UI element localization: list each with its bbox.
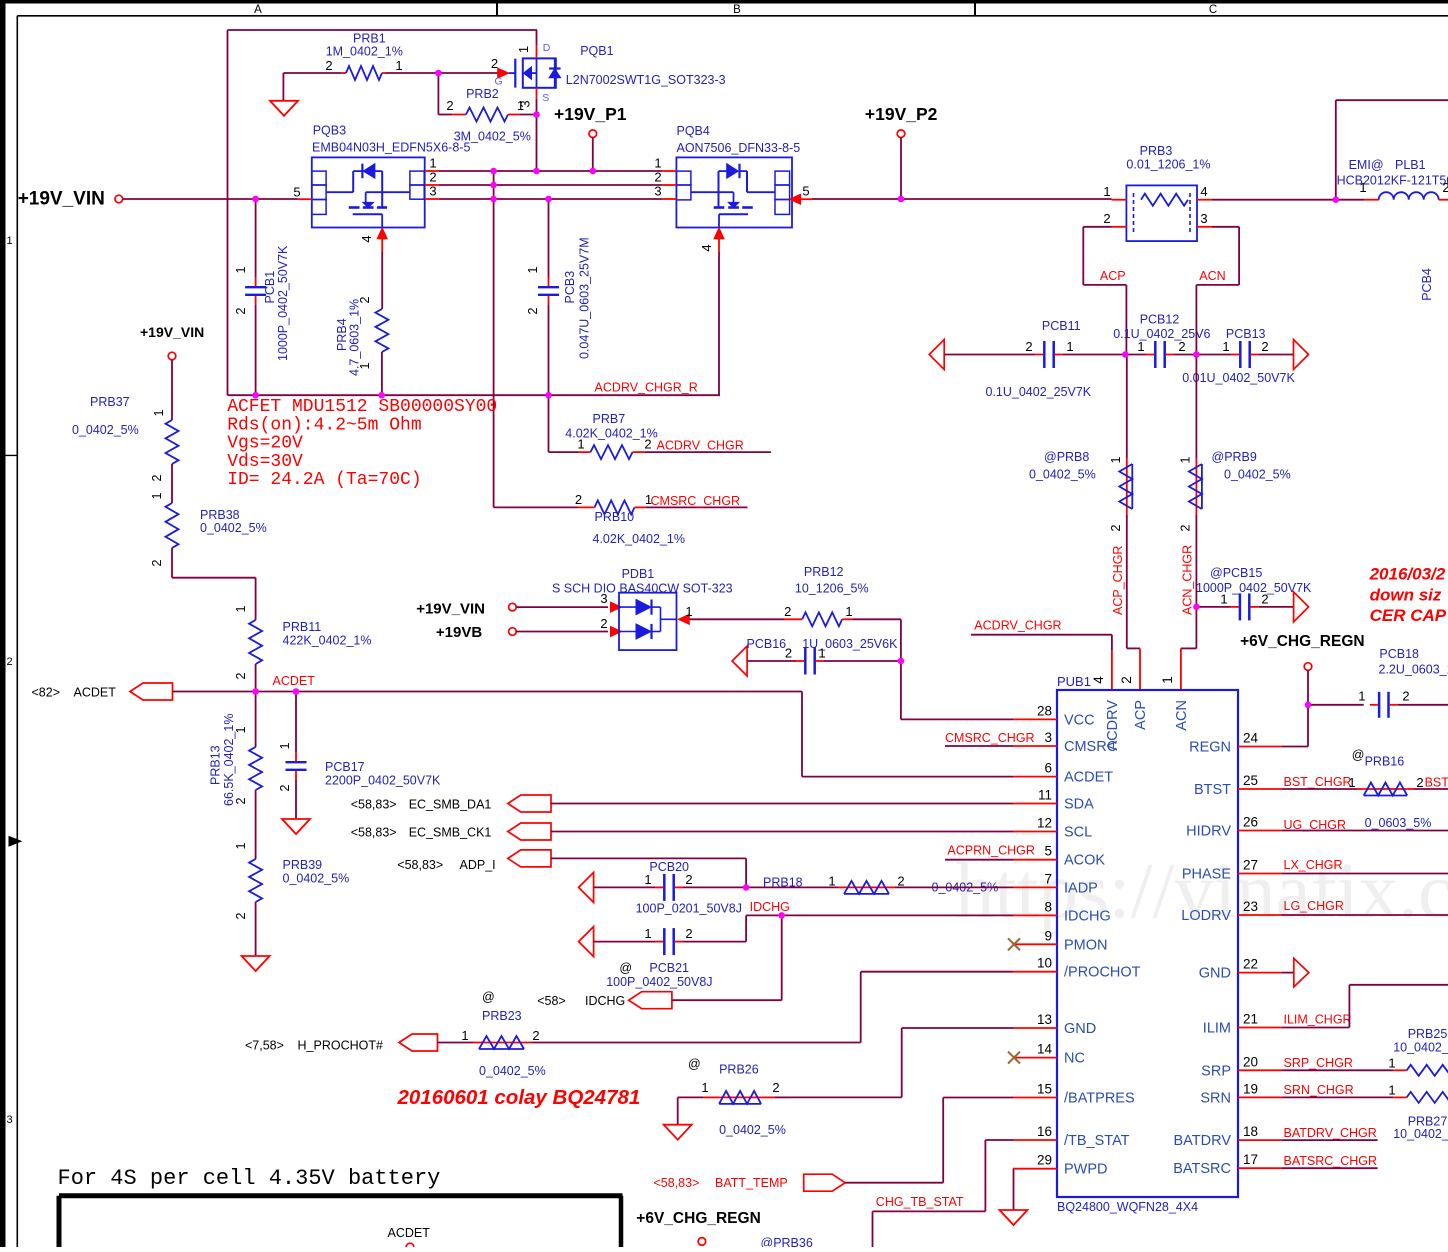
svg-text:0_0402_5%: 0_0402_5% — [200, 521, 267, 535]
pin PQB1 drain stub — [536, 30, 538, 46]
svg-text:9: 9 — [1044, 928, 1052, 943]
svg-text:2016/03/2: 2016/03/2 — [1369, 565, 1446, 584]
wire PRB38 to PRB11 — [171, 548, 173, 578]
pin 5 ACOK — [1013, 859, 1057, 861]
svg-text:1: 1 — [1388, 1083, 1395, 1098]
svg-text:BQ24800_WQFN28_4X4: BQ24800_WQFN28_4X4 — [1057, 1200, 1198, 1214]
svg-text:14: 14 — [1037, 1042, 1053, 1057]
pin 14 NC — [1013, 1057, 1057, 1059]
svg-text:HCB2012KF-121T50: HCB2012KF-121T50 — [1337, 174, 1448, 188]
svg-text:1: 1 — [644, 872, 651, 887]
svg-text:25: 25 — [1243, 773, 1258, 788]
pin 12 SCL — [1013, 831, 1057, 833]
svg-text:EC_SMB_DA1: EC_SMB_DA1 — [409, 798, 492, 812]
svg-text:GND: GND — [1064, 1021, 1096, 1037]
svg-text:For 4S per cell 4.35V battery: For 4S per cell 4.35V battery — [58, 1166, 441, 1191]
svg-text:@PRB9: @PRB9 — [1212, 450, 1257, 464]
svg-text:/BATPRES: /BATPRES — [1064, 1091, 1135, 1107]
wire PRB1 to PQB1 gate — [438, 72, 503, 74]
svg-text:1: 1 — [150, 492, 164, 499]
svg-text:+19V_P1: +19V_P1 — [554, 104, 627, 124]
wire ACN — [1212, 226, 1239, 228]
wire IDCHG to pin8 — [746, 914, 1013, 916]
wire PRB12 to VCC — [852, 618, 901, 620]
svg-text:PRB23: PRB23 — [482, 1009, 522, 1023]
svg-text:+19V_VIN: +19V_VIN — [416, 601, 485, 618]
svg-text:26: 26 — [1243, 815, 1258, 830]
pin PQB1 source stub — [536, 88, 538, 99]
svg-text:IDCHG: IDCHG — [750, 900, 790, 914]
svg-text:BATSRC: BATSRC — [1173, 1161, 1231, 1177]
svg-text:@PRB36: @PRB36 — [761, 1236, 813, 1247]
svg-text:4.02K_0402_1%: 4.02K_0402_1% — [593, 532, 685, 546]
power port for PCB20 — [579, 872, 594, 902]
svg-text:21: 21 — [1243, 1012, 1258, 1027]
svg-text:ACDET: ACDET — [1064, 770, 1113, 786]
svg-text:Rds(on):4.2~5m Ohm: Rds(on):4.2~5m Ohm — [227, 415, 421, 435]
svg-text:PMON: PMON — [1064, 937, 1108, 953]
svg-text:1: 1 — [1179, 456, 1193, 463]
resistor PRB7 — [578, 451, 590, 453]
svg-text:PRB11: PRB11 — [283, 620, 322, 634]
svg-text:0.1U_0402_25V6: 0.1U_0402_25V6 — [1113, 327, 1210, 341]
svg-text:1: 1 — [152, 409, 166, 416]
wire bottom rail — [228, 394, 721, 396]
svg-text:1: 1 — [461, 1028, 468, 1043]
svg-text:1: 1 — [234, 726, 248, 733]
pin 7 IADP — [1013, 886, 1057, 888]
resistor PRB10 — [578, 506, 594, 508]
svg-text:2: 2 — [1179, 524, 1193, 531]
svg-text:1: 1 — [1358, 689, 1365, 704]
pins PQB4 1 2 3 stubs — [663, 170, 677, 172]
svg-text:ACDRV_CHGR: ACDRV_CHGR — [657, 439, 744, 453]
svg-text:24: 24 — [1243, 731, 1259, 746]
wire EMI riser — [1335, 100, 1337, 200]
capacitor PCB1 — [255, 199, 257, 277]
svg-text:ACDET: ACDET — [273, 674, 316, 688]
svg-text:3: 3 — [1200, 211, 1207, 226]
svg-text:1: 1 — [1388, 1056, 1395, 1071]
svg-text:LG_CHGR: LG_CHGR — [1284, 899, 1344, 913]
svg-text:2: 2 — [6, 656, 12, 668]
svg-text:PQB3: PQB3 — [313, 124, 346, 138]
no-connect NC — [1008, 1052, 1020, 1064]
svg-text:S SCH DIO BAS40CW SOT-323: S SCH DIO BAS40CW SOT-323 — [552, 582, 733, 596]
capacitor PCB3 — [548, 199, 550, 277]
svg-text:ACN: ACN — [1199, 269, 1225, 283]
svg-text:13: 13 — [1037, 1012, 1052, 1027]
svg-text:+19V_VIN: +19V_VIN — [140, 324, 204, 340]
svg-text:ACP_CHGR: ACP_CHGR — [1111, 546, 1125, 615]
svg-text:PCB3: PCB3 — [563, 271, 577, 304]
wire drain bus line1 — [439, 170, 663, 172]
pin PQB4 5 — [790, 194, 801, 204]
svg-text:PRB38: PRB38 — [200, 508, 240, 522]
svg-text:2: 2 — [1103, 211, 1110, 226]
pin 27 PHASE — [1238, 873, 1282, 875]
pin 10 /PROCHOT — [1013, 971, 1057, 973]
svg-text:10: 10 — [1037, 956, 1052, 971]
svg-text:ACP: ACP — [1133, 700, 1149, 730]
svg-text:66.5K_0402_1%: 66.5K_0402_1% — [222, 714, 236, 806]
svg-text:PCB18: PCB18 — [1379, 647, 1419, 661]
pin 18 BATDRV — [1238, 1139, 1282, 1141]
svg-text:Vgs=20V: Vgs=20V — [227, 434, 303, 454]
sheet border frame — [0, 0, 1448, 4]
svg-text:2: 2 — [150, 559, 164, 566]
svg-text:<82>: <82> — [32, 686, 61, 700]
resistor PRB23 — [438, 1042, 474, 1044]
svg-text:BST: BST — [1425, 776, 1448, 790]
wire PRB3 out right — [1212, 199, 1364, 201]
svg-text:2: 2 — [278, 784, 292, 791]
svg-text:6: 6 — [1044, 761, 1052, 776]
svg-text:2200P_0402_50V7K: 2200P_0402_50V7K — [325, 774, 441, 788]
svg-text:EC_SMB_CK1: EC_SMB_CK1 — [409, 826, 492, 840]
pins PQB3 1 2 3 stubs — [425, 170, 439, 172]
wire EC_SMB_DA1 to SDA — [551, 803, 1013, 805]
svg-text:2: 2 — [1119, 676, 1134, 684]
svg-text:18: 18 — [1243, 1124, 1258, 1139]
svg-text:PRB3: PRB3 — [1140, 144, 1173, 158]
wire ACDRV_CHGR — [971, 634, 1112, 636]
svg-text:100P_0201_50V8J: 100P_0201_50V8J — [636, 902, 742, 916]
wire PWPD to ground — [1012, 1168, 1015, 1170]
svg-text:2: 2 — [234, 797, 248, 804]
pin 17 BATSRC — [1238, 1167, 1282, 1169]
svg-text:0.1U_0402_25V7K: 0.1U_0402_25V7K — [986, 385, 1092, 399]
svg-text:PRB7: PRB7 — [593, 412, 626, 426]
svg-text:1: 1 — [234, 842, 248, 849]
svg-text:1: 1 — [845, 604, 852, 619]
svg-text:10_0402_: 10_0402_ — [1393, 1041, 1448, 1055]
svg-text:5: 5 — [802, 184, 809, 199]
svg-text:1: 1 — [828, 874, 835, 889]
capacitor PCB21 — [579, 927, 594, 957]
svg-text:+6V_CHG_REGN: +6V_CHG_REGN — [1240, 633, 1364, 650]
wire PRB26 to GND pin13 — [790, 1096, 902, 1098]
svg-text:SRP_CHGR: SRP_CHGR — [1284, 1056, 1353, 1070]
svg-text:3: 3 — [1044, 730, 1052, 745]
svg-text:Vds=30V: Vds=30V — [227, 452, 303, 472]
svg-text:3: 3 — [6, 1114, 12, 1126]
svg-text:IDCHG: IDCHG — [1064, 908, 1111, 924]
pin 6 ACDET — [1013, 776, 1057, 778]
svg-text:22: 22 — [1243, 957, 1258, 972]
svg-text:@: @ — [1352, 748, 1365, 762]
svg-text:CHG_TB_STAT: CHG_TB_STAT — [876, 1195, 964, 1209]
svg-text:LODRV: LODRV — [1181, 908, 1231, 924]
svg-text:GND: GND — [1199, 966, 1231, 982]
pin PQB3 4 — [377, 228, 387, 239]
svg-text:4.7_0603_1%: 4.7_0603_1% — [348, 299, 362, 376]
ground for PRB26 — [677, 1097, 679, 1124]
svg-text:SRP: SRP — [1201, 1063, 1231, 1079]
svg-text:1: 1 — [516, 46, 531, 53]
svg-text:EMI@: EMI@ — [1349, 158, 1384, 172]
svg-text:4: 4 — [1091, 676, 1106, 684]
svg-text:2: 2 — [532, 1028, 539, 1043]
svg-text:PQB1: PQB1 — [580, 44, 613, 58]
svg-text:2: 2 — [1261, 339, 1268, 354]
svg-text:ACPRN_CHGR: ACPRN_CHGR — [947, 843, 1035, 857]
svg-text:AON7506_DFN33-8-5: AON7506_DFN33-8-5 — [677, 141, 801, 155]
svg-text:LX_CHGR: LX_CHGR — [1284, 858, 1343, 872]
svg-text:4: 4 — [699, 244, 714, 251]
svg-text:@PCB15: @PCB15 — [1210, 566, 1262, 580]
svg-text:1: 1 — [1220, 592, 1227, 607]
svg-text:5: 5 — [293, 185, 300, 200]
svg-text:@: @ — [688, 1057, 701, 1071]
svg-text:10_1206_5%: 10_1206_5% — [795, 582, 869, 596]
svg-text:ID= 24.2A (Ta=70C): ID= 24.2A (Ta=70C) — [227, 470, 421, 490]
svg-text:BATDRV: BATDRV — [1174, 1133, 1232, 1149]
svg-text:20160601 colay BQ24781: 20160601 colay BQ24781 — [397, 1086, 641, 1109]
wire /TB_STAT — [985, 1139, 1013, 1141]
svg-text:2: 2 — [234, 912, 248, 919]
svg-text:PRB26: PRB26 — [719, 1063, 759, 1077]
ground for PCB17 — [282, 819, 310, 834]
pin 15 /BATPRES — [1013, 1097, 1057, 1099]
svg-text:1: 1 — [1348, 775, 1355, 790]
wire +19V_VIN — [123, 198, 299, 200]
svg-text:BATT_TEMP: BATT_TEMP — [715, 1176, 788, 1190]
svg-text:H_PROCHOT#: H_PROCHOT# — [298, 1039, 383, 1053]
svg-text:8: 8 — [1044, 899, 1052, 914]
svg-text:PRB25: PRB25 — [1408, 1027, 1448, 1041]
resistor PRB1 — [283, 72, 341, 74]
svg-text:ACDET: ACDET — [388, 1226, 431, 1240]
wire top loop — [228, 29, 538, 31]
capacitor PCB16 — [747, 660, 796, 662]
svg-text:PCB1: PCB1 — [263, 271, 277, 304]
svg-text:1: 1 — [1359, 180, 1366, 195]
svg-text:G: G — [495, 76, 503, 88]
svg-text:2: 2 — [234, 672, 248, 679]
svg-text:1: 1 — [577, 437, 584, 452]
svg-text:B: B — [733, 4, 741, 16]
svg-text:20: 20 — [1243, 1054, 1258, 1069]
svg-text:29: 29 — [1037, 1153, 1052, 1168]
svg-text:PRB12: PRB12 — [804, 565, 844, 579]
svg-text:4: 4 — [359, 235, 374, 242]
svg-text:ADP_I: ADP_I — [460, 858, 496, 872]
capacitor PCB12 — [1125, 354, 1146, 356]
resistor PRB9 — [1195, 355, 1197, 459]
svg-text:16: 16 — [1037, 1124, 1052, 1139]
power port left of PCB11 — [929, 340, 944, 370]
svg-text:SDA: SDA — [1064, 797, 1094, 813]
svg-text:0_0402_5%: 0_0402_5% — [1029, 468, 1096, 482]
svg-text:ACFET MDU1512 SB00000SY00: ACFET MDU1512 SB00000SY00 — [227, 397, 497, 417]
svg-text:CMSRC_CHGR: CMSRC_CHGR — [945, 731, 1035, 745]
svg-text:12: 12 — [1037, 816, 1052, 831]
capacitor PCB11 — [944, 354, 1035, 356]
pin 22 GND — [1238, 972, 1282, 974]
svg-text:PLB1: PLB1 — [1395, 158, 1426, 172]
wire PDB1 to PRB12 — [689, 618, 784, 620]
wire ACDET to pin6 — [801, 692, 803, 777]
wire EC_SMB_CK1 to SCL — [551, 831, 1013, 833]
svg-text:PRB37: PRB37 — [90, 395, 130, 409]
resistor PRB8 — [1126, 355, 1128, 459]
pin 8 IDCHG — [1013, 914, 1057, 916]
pin 11 SDA — [1013, 803, 1057, 805]
svg-text:+19VB: +19VB — [436, 624, 482, 641]
svg-text:2: 2 — [150, 474, 164, 481]
svg-text:1U_0603_25V6K: 1U_0603_25V6K — [802, 637, 898, 651]
svg-text:PRB10: PRB10 — [595, 510, 635, 524]
svg-text:1: 1 — [526, 266, 540, 273]
svg-text:3: 3 — [654, 184, 661, 199]
svg-text:0_0402_5%: 0_0402_5% — [283, 872, 350, 886]
svg-text:<58,83>: <58,83> — [351, 826, 397, 840]
svg-text:0.01_1206_1%: 0.01_1206_1% — [1126, 158, 1210, 172]
wire rail up to PQB4 pin4 — [718, 252, 720, 395]
svg-text:<58,83>: <58,83> — [351, 798, 397, 812]
svg-text:0.01U_0402_50V7K: 0.01U_0402_50V7K — [1182, 371, 1295, 385]
svg-text:+19V_P2: +19V_P2 — [865, 104, 938, 124]
battery box — [59, 1193, 623, 1198]
svg-text:@: @ — [619, 961, 632, 975]
svg-text:PRB18: PRB18 — [763, 876, 803, 890]
power port right of PCB13 — [1294, 340, 1309, 370]
svg-text:REGN: REGN — [1189, 740, 1231, 756]
svg-text:+19V_VIN: +19V_VIN — [18, 189, 105, 210]
svg-text:1: 1 — [234, 605, 248, 612]
svg-text:BST_CHGR: BST_CHGR — [1284, 775, 1352, 789]
svg-text:2: 2 — [1442, 180, 1448, 195]
svg-text:1: 1 — [1103, 184, 1110, 199]
svg-text:D: D — [543, 42, 551, 54]
svg-text:PRB16: PRB16 — [1365, 755, 1405, 769]
svg-text:1: 1 — [1160, 676, 1175, 684]
pin 21 ILIM — [1238, 1027, 1282, 1029]
svg-text:SRN_CHGR: SRN_CHGR — [1284, 1083, 1354, 1097]
svg-text:EMB04N03H_EDFN5X6-8-5: EMB04N03H_EDFN5X6-8-5 — [312, 141, 470, 155]
svg-text:422K_0402_1%: 422K_0402_1% — [283, 634, 372, 648]
wire ACP — [1083, 226, 1111, 228]
svg-text:4: 4 — [1200, 184, 1207, 199]
svg-text:PCB12: PCB12 — [1140, 313, 1180, 327]
wire BATT_TEMP to /BATPRES — [845, 1182, 943, 1184]
wire PRB18 to IADP — [895, 886, 1013, 888]
pin 25 BTST — [1238, 788, 1282, 790]
wire IDCHG port — [672, 999, 782, 1001]
svg-text:PCB20: PCB20 — [649, 860, 689, 874]
svg-text:2: 2 — [1402, 689, 1409, 704]
svg-text:17: 17 — [1243, 1152, 1258, 1167]
svg-text:IADP: IADP — [1064, 880, 1098, 896]
svg-text:1: 1 — [644, 926, 651, 941]
svg-text:1: 1 — [1066, 339, 1073, 354]
svg-text:<58,83>: <58,83> — [654, 1176, 700, 1190]
svg-text:ILIM_CHGR: ILIM_CHGR — [1284, 1013, 1352, 1027]
svg-text:BATDRV_CHGR: BATDRV_CHGR — [1284, 1126, 1377, 1140]
op-amp U1 charger IC PUB1 BQ24800 — [1057, 690, 1238, 1197]
svg-text:+6V_CHG_REGN: +6V_CHG_REGN — [636, 1210, 760, 1227]
wire PCB3 down to PRB7 — [548, 395, 550, 452]
svg-text:<58,83>: <58,83> — [397, 858, 443, 872]
svg-text:2: 2 — [644, 437, 651, 452]
svg-text:0_0402_5%: 0_0402_5% — [479, 1064, 546, 1078]
capacitor PCB13 — [1196, 354, 1231, 356]
svg-text:ACDRV_CHGR: ACDRV_CHGR — [974, 619, 1061, 633]
pin 29 PWPD — [1013, 1168, 1057, 1170]
transistor PQB1 — [523, 58, 556, 87]
pin 19 SRN — [1238, 1096, 1282, 1098]
svg-text:1000P_0402_50V7K: 1000P_0402_50V7K — [276, 245, 290, 361]
svg-text:@: @ — [482, 990, 495, 1004]
svg-text:PCB11: PCB11 — [1042, 319, 1081, 333]
svg-text:2: 2 — [1178, 339, 1185, 354]
wire +19V_P2 line — [812, 198, 1112, 200]
svg-text:100P_0402_50V8J: 100P_0402_50V8J — [606, 975, 712, 989]
capacitor PCB18 — [1308, 704, 1364, 706]
svg-text:3: 3 — [518, 100, 533, 107]
svg-text:PRB1: PRB1 — [353, 32, 386, 46]
svg-text:PQB4: PQB4 — [677, 124, 710, 138]
svg-text:ACDRV_CHGR_R: ACDRV_CHGR_R — [595, 381, 698, 395]
pin 28 VCC — [1013, 718, 1057, 720]
svg-text:2: 2 — [685, 926, 692, 941]
svg-text:L2N7002SWT1G_SOT323-3: L2N7002SWT1G_SOT323-3 — [566, 73, 726, 87]
svg-text:10_0402_: 10_0402_ — [1393, 1127, 1448, 1141]
pin 24 REGN — [1238, 746, 1282, 748]
svg-text:S: S — [542, 92, 549, 104]
svg-text:2: 2 — [526, 307, 540, 314]
svg-text:<7,58>: <7,58> — [245, 1039, 284, 1053]
svg-text:2: 2 — [491, 56, 498, 71]
svg-text:0.047U_0603_25V7M: 0.047U_0603_25V7M — [578, 237, 592, 359]
power port for PCB16 — [732, 646, 747, 676]
svg-text:PCB13: PCB13 — [1226, 327, 1266, 341]
resistor PRB4 — [381, 252, 383, 309]
svg-text:PHASE: PHASE — [1182, 867, 1231, 883]
svg-text:0_0402_5%: 0_0402_5% — [72, 423, 139, 437]
pin 16 /TB_STAT — [1013, 1139, 1057, 1141]
svg-text:BATSRC_CHGR: BATSRC_CHGR — [1284, 1154, 1378, 1168]
svg-text:PCB16: PCB16 — [747, 637, 787, 651]
pin 3 CMSRC — [1013, 745, 1057, 747]
svg-text:1: 1 — [1109, 456, 1123, 463]
svg-text:2: 2 — [575, 492, 582, 507]
pin 20 SRP — [1238, 1069, 1282, 1071]
svg-text:2: 2 — [1025, 339, 1032, 354]
svg-text:28: 28 — [1037, 703, 1052, 718]
svg-text:27: 27 — [1243, 858, 1258, 873]
svg-text:2: 2 — [1261, 592, 1268, 607]
svg-text:1: 1 — [429, 156, 436, 171]
svg-text:19: 19 — [1243, 1081, 1258, 1096]
svg-text:PCB17: PCB17 — [325, 760, 365, 774]
svg-text:ILIM: ILIM — [1203, 1021, 1231, 1037]
svg-text:HIDRV: HIDRV — [1186, 824, 1231, 840]
svg-text:down siz: down siz — [1370, 586, 1442, 605]
svg-text:2.2U_0603_1: 2.2U_0603_1 — [1379, 663, 1448, 677]
svg-text:15: 15 — [1037, 1082, 1052, 1097]
svg-text:0_0402_5%: 0_0402_5% — [719, 1123, 786, 1137]
svg-text:PCB4: PCB4 — [1420, 268, 1434, 301]
diode PDB1 — [516, 606, 608, 608]
svg-text:2: 2 — [234, 307, 248, 314]
svg-text:2: 2 — [897, 874, 904, 889]
svg-text:2: 2 — [772, 1080, 779, 1095]
pin PQB4 4 — [714, 228, 724, 239]
svg-text:ACN: ACN — [1174, 700, 1190, 731]
svg-text:ACDRV: ACDRV — [1105, 700, 1121, 751]
